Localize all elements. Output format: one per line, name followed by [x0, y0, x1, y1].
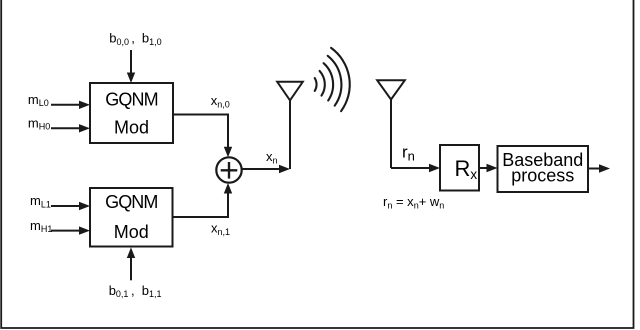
adder (summation node)	[216, 157, 241, 182]
wire RX antenna to Rx block (rn)	[391, 164, 440, 172]
RX antenna	[377, 80, 405, 168]
svg-text:process: process	[511, 165, 574, 185]
wire mL1 into U2	[51, 202, 90, 210]
svg-text:GQNM: GQNM	[105, 90, 157, 110]
output wire from baseband	[588, 164, 610, 172]
wire adder to TX antenna (xn)	[242, 165, 290, 173]
svg-text:Mod: Mod	[114, 118, 149, 138]
receiver block Rx	[440, 145, 479, 191]
label xn	[266, 149, 278, 166]
svg-text:GQNM: GQNM	[105, 192, 157, 212]
baseband process block	[498, 146, 589, 192]
modulator block U2 GQNM Mod	[90, 188, 173, 247]
wire U1 output to adder (xn,0)	[173, 115, 232, 158]
label b0,0 , b1,0	[109, 31, 161, 47]
wire Rx to Baseband	[479, 164, 498, 172]
wire mH0 into U1	[51, 124, 90, 132]
modulator block U1 GQNM Mod	[90, 83, 173, 143]
label b0,1 , b1,1	[109, 283, 162, 299]
wire mH1 into U2	[51, 226, 90, 234]
wire U2 output to adder (xn,1)	[173, 183, 233, 217]
label rn	[402, 143, 415, 164]
label mL1	[30, 193, 51, 209]
label mH0	[28, 115, 50, 131]
equation rn = xn + wn	[383, 194, 444, 211]
label xn,1	[211, 220, 230, 237]
label mH1	[30, 218, 52, 234]
svg-text:Mod: Mod	[114, 222, 149, 242]
label xn,0	[211, 93, 230, 110]
wire bit input to U2 (up arrow)	[127, 247, 135, 280]
radio waves	[315, 48, 350, 111]
TX antenna	[277, 82, 303, 169]
label mL0	[28, 92, 49, 108]
wire bit input to U1 (down arrow)	[127, 50, 135, 83]
wire mL0 into U1	[51, 101, 90, 109]
svg-text:rn = xn+ wn: rn = xn+ wn	[383, 194, 444, 211]
